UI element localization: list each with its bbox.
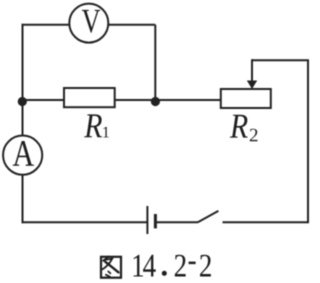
- resistor R1 box: [64, 88, 115, 107]
- wire switch to bottom-right corner: [223, 221, 309, 223]
- caption text 14.2-2: [133, 255, 143, 277]
- wire left vertical upper: [22, 24, 24, 136]
- ammeter A letter: [13, 141, 34, 166]
- wire left vertical lower: [22, 175, 24, 224]
- caption character 图: [101, 256, 121, 277]
- voltmeter V letter: [82, 10, 100, 33]
- battery short plate (negative): [154, 214, 157, 228]
- node B junction dot: [151, 97, 160, 106]
- wire R1 to R2 through node B: [115, 99, 221, 101]
- wire wiper top horizontal: [252, 59, 309, 61]
- wire main horizontal node A to R1: [22, 99, 64, 101]
- switch S blade: [198, 211, 219, 222]
- wiper arrowhead of rheostat R2: [247, 81, 257, 90]
- voltmeter V circle: [69, 4, 108, 43]
- wire right vertical: [307, 60, 309, 223]
- wire bottom left to battery: [22, 221, 148, 223]
- wire upper-right vertical to node B: [154, 25, 156, 101]
- label R2: [230, 115, 248, 138]
- wire top-left horizontal: [22, 24, 70, 26]
- label R1: [84, 114, 102, 137]
- rheostat R2 box: [221, 89, 271, 108]
- battery long plate (positive): [146, 206, 148, 234]
- wire wiper vertical: [251, 59, 253, 82]
- ammeter A circle: [3, 136, 42, 175]
- wire top-right horizontal: [108, 24, 156, 26]
- node A junction dot: [18, 97, 27, 106]
- wire battery to switch: [156, 221, 198, 223]
